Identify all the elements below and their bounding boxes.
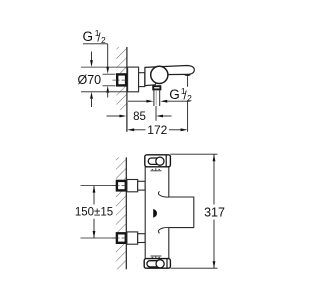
svg-text:317: 317	[204, 205, 225, 219]
dimension 85	[107, 106, 172, 123]
svg-text:Ø70: Ø70	[78, 73, 102, 87]
bottom knob outer	[144, 259, 170, 269]
lower union nut	[117, 233, 126, 243]
svg-text:85: 85	[133, 111, 146, 123]
dimension G1/2 (outlet, right)	[128, 86, 192, 103]
wall surface line (top view)	[126, 47, 128, 132]
body mark	[153, 209, 157, 218]
dimension 172	[127, 76, 187, 137]
upper escutcheon	[127, 180, 138, 192]
escutcheon	[128, 67, 139, 92]
lower pipe stub	[138, 234, 146, 243]
top knob circle	[156, 157, 164, 165]
wall hatch (top view)	[117, 47, 127, 110]
dimension G1/2 (top-left label)	[83, 28, 116, 98]
thermostat cap circle	[151, 66, 168, 83]
body slab	[145, 167, 169, 259]
wall hatch (bottom view)	[116, 157, 126, 269]
bottom knob stadium	[147, 261, 160, 267]
dimension Ø70	[78, 52, 127, 108]
outlet tube	[153, 90, 155, 106]
mixer body + lever (side view)	[145, 66, 194, 86]
pipe centerline (dashed)	[113, 79, 147, 81]
upper union nut	[117, 181, 126, 191]
top knob outer	[145, 155, 171, 167]
bottom fillet	[158, 227, 168, 233]
svg-text:172: 172	[147, 123, 167, 137]
svg-text:G: G	[83, 29, 94, 44]
svg-text:150±15: 150±15	[75, 207, 113, 219]
lever end nub	[185, 74, 191, 76]
upper pipe stub	[138, 181, 146, 190]
upper scale ticks	[151, 168, 162, 171]
lower escutcheon	[127, 232, 138, 244]
top fillet	[158, 191, 168, 197]
dimension 317	[170, 154, 225, 268]
top knob stadium	[148, 158, 160, 164]
union nut	[117, 74, 126, 85]
top knob divider	[165, 155, 167, 167]
bottom knob circle	[156, 260, 164, 268]
wall surface line (bottom view)	[125, 157, 127, 269]
dimension 150±15	[75, 186, 117, 238]
lower scale ticks	[151, 256, 162, 258]
svg-text:G: G	[169, 87, 180, 102]
central boss	[169, 197, 194, 228]
lower pipe centerline (dashed)	[113, 237, 150, 239]
upper pipe centerline (dashed)	[113, 185, 150, 187]
S-union pipe stub	[139, 73, 145, 87]
outlet collar	[153, 86, 160, 89]
bottom knob divider	[166, 259, 168, 269]
